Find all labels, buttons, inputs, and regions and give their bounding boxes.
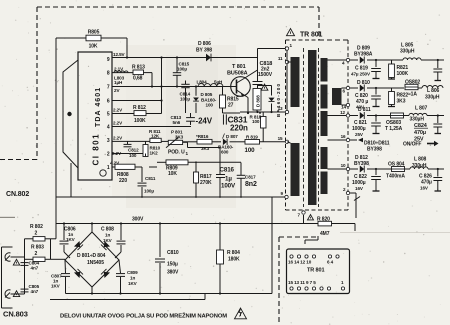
svg-text:T 1,25A: T 1,25A	[385, 126, 403, 132]
svg-text:100K: 100K	[134, 118, 146, 124]
resistor R808	[115, 164, 135, 184]
svg-text:1KV: 1KV	[51, 284, 61, 289]
svg-text:100V: 100V	[221, 182, 236, 189]
resistor R813	[132, 64, 145, 81]
svg-text:D 807: D 807	[226, 134, 238, 139]
svg-text:16: 16	[341, 134, 346, 139]
wire row pin10	[328, 163, 445, 171]
svg-text:1n: 1n	[130, 276, 135, 281]
transformer label TR 801	[287, 29, 323, 39]
svg-text:2: 2	[35, 231, 38, 237]
capacitor C808	[101, 224, 126, 259]
svg-text:1KV: 1KV	[128, 281, 138, 286]
TR801 bottom pins	[290, 287, 345, 290]
capacitor C826	[419, 169, 442, 191]
svg-text:180K: 180K	[228, 257, 240, 263]
svg-text:600: 600	[221, 150, 229, 155]
inductor L805	[400, 43, 421, 61]
diode D812	[354, 155, 369, 173]
svg-text:9: 9	[107, 57, 110, 63]
wire primary ground bus	[56, 196, 287, 198]
svg-text:R 804: R 804	[227, 250, 240, 256]
svg-text:2.2V: 2.2V	[113, 121, 123, 126]
label C831 220n	[228, 115, 249, 133]
svg-text:D 810: D 810	[357, 80, 370, 86]
svg-text:C810: C810	[167, 250, 179, 256]
svg-text:3: 3	[107, 138, 110, 144]
svg-text:BY 398: BY 398	[196, 48, 212, 54]
warning triangle C818	[261, 84, 268, 90]
svg-text:TDA 4601: TDA 4601	[95, 88, 102, 127]
wire lower return	[50, 294, 205, 300]
voltage label 4.2V	[110, 161, 120, 166]
transformer secondary winding upper	[321, 58, 328, 136]
transformer core dashed lines	[304, 48, 319, 207]
transformer pin 7	[298, 211, 306, 218]
svg-text:CN.803: CN.803	[3, 310, 28, 319]
svg-text:6: 6	[107, 99, 110, 105]
svg-text:100: 100	[245, 147, 256, 154]
mains isolation dashed boundary (top and left)	[0, 7, 348, 160]
capacitor C824	[414, 116, 442, 143]
svg-text:R 802: R 802	[30, 224, 43, 230]
svg-text:16 14 12 10: 16 14 12 10	[288, 260, 312, 265]
capacitor C806	[60, 224, 76, 259]
svg-text:≈1A: ≈1A	[408, 92, 417, 98]
transformer primary winding upper	[291, 57, 300, 107]
capacitor C815	[173, 58, 190, 87]
svg-text:15: 15	[278, 136, 283, 141]
capacitor C810	[155, 222, 179, 293]
svg-text:10K: 10K	[89, 44, 98, 50]
capacitor C816	[216, 148, 236, 198]
wire row pin6	[342, 86, 423, 93]
connector label CN.802	[6, 191, 29, 198]
capacitor C807	[51, 260, 70, 294]
cap C831	[223, 114, 226, 124]
svg-text:1500V: 1500V	[258, 72, 273, 78]
capacitor C811	[138, 167, 156, 197]
resistor R810	[143, 141, 161, 156]
TR801 label	[307, 268, 324, 274]
IC pin numbers	[107, 57, 110, 171]
resistor R816	[196, 134, 212, 151]
svg-text:L 806: L 806	[427, 88, 440, 94]
voltage label 2V	[114, 88, 120, 93]
voltage label 0.2V	[112, 151, 122, 156]
inductor L804	[197, 79, 224, 86]
svg-text:4: 4	[107, 125, 110, 131]
svg-text:OS802: OS802	[405, 80, 420, 86]
inductor L808	[405, 157, 428, 170]
resistor R809	[157, 160, 241, 177]
resistor R805	[86, 30, 101, 50]
wire pin1	[112, 166, 157, 168]
transformer pin 2 bottom	[343, 187, 360, 218]
transformer TR801 dashed box	[286, 40, 349, 210]
resistor R811	[149, 129, 161, 142]
resistor R818	[250, 112, 267, 142]
svg-text:L 808: L 808	[414, 157, 427, 163]
svg-text:-24V: -24V	[196, 117, 213, 126]
diode D808 boxed	[253, 89, 261, 113]
wire stub left edge	[0, 216, 15, 218]
zener D805	[193, 87, 217, 114]
transformer pin 11	[278, 56, 291, 64]
svg-text:D 806: D 806	[198, 41, 211, 47]
inductor L803	[114, 71, 128, 85]
svg-text:100: 100	[206, 102, 214, 107]
svg-text:330µH: 330µH	[410, 117, 425, 123]
transformer secondary winding lower	[321, 147, 328, 194]
svg-text:TR 801: TR 801	[307, 268, 324, 274]
svg-text:12K: 12K	[151, 134, 160, 139]
svg-text:100µ: 100µ	[180, 97, 190, 102]
capacitor C822	[352, 169, 381, 191]
voltage label 2.2V pin5	[113, 108, 123, 113]
plug pin 2	[5, 290, 25, 298]
bridge rectifier D801-D804	[65, 232, 119, 287]
label ON/OFF	[403, 141, 439, 148]
TR801 top labels	[288, 260, 334, 265]
wire pin6	[112, 56, 163, 113]
svg-text:CI 801: CI 801	[92, 134, 101, 166]
wire row pin4	[328, 58, 445, 65]
diode BA160-200	[258, 83, 282, 117]
bridge diode TR	[101, 241, 110, 250]
svg-text:470µ: 470µ	[414, 130, 426, 136]
svg-text:4n7: 4n7	[31, 266, 39, 271]
svg-text:C816: C816	[220, 166, 235, 173]
svg-text:1n: 1n	[105, 233, 110, 238]
svg-text:330µH: 330µH	[425, 95, 440, 101]
plug pin 1	[5, 253, 25, 261]
svg-text:OS 804: OS 804	[388, 162, 405, 168]
svg-text:150µ: 150µ	[167, 262, 178, 268]
resistor R817	[194, 162, 213, 197]
capacitor C809	[116, 260, 138, 294]
wire left rail x56	[55, 38, 57, 239]
TR801 top pins	[290, 255, 339, 258]
svg-text:6 4: 6 4	[327, 260, 334, 265]
voltage label 2.2V pin4	[113, 121, 123, 126]
bridge diode TL	[74, 241, 83, 250]
inductor L806	[422, 86, 443, 101]
dashed boundary at bottom (to TR801 connector)	[279, 237, 318, 325]
diode D810	[357, 80, 370, 92]
capacitor C814	[180, 81, 191, 114]
wire P801 out	[183, 142, 220, 147]
wire pin8	[112, 73, 152, 87]
voltage label 2.2V pin3	[113, 136, 123, 141]
svg-text:*R816: *R816	[196, 134, 209, 139]
svg-text:220: 220	[119, 178, 127, 184]
transformer pin 15	[278, 136, 289, 144]
wire 300V bus	[56, 223, 318, 225]
voltage label 2.1V	[114, 67, 124, 72]
svg-text:8: 8	[107, 71, 110, 77]
bridge diode BL	[74, 269, 83, 278]
svg-text:D 808: D 808	[256, 95, 261, 107]
transformer pin 1	[285, 43, 292, 50]
svg-text:380V: 380V	[167, 270, 179, 276]
IC text TDA 4601	[95, 88, 102, 127]
svg-text:1µH: 1µH	[114, 80, 123, 85]
svg-text:16V: 16V	[355, 186, 364, 191]
warning triangle plug1	[13, 259, 19, 265]
diode D807	[218, 134, 238, 155]
connector TR801 box	[287, 249, 350, 294]
svg-text:POD. U: POD. U	[168, 150, 185, 156]
svg-text:BU508A: BU508A	[227, 71, 248, 77]
svg-text:5µH: 5µH	[214, 79, 223, 84]
svg-text:R805: R805	[88, 30, 100, 36]
svg-text:220n: 220n	[230, 123, 248, 132]
svg-text:1KV: 1KV	[103, 238, 113, 243]
wire R805 net	[56, 38, 127, 58]
svg-text:5n6: 5n6	[173, 120, 181, 125]
IC tab	[63, 60, 78, 168]
svg-text:D 811: D 811	[358, 107, 371, 113]
svg-text:1K2: 1K2	[150, 151, 159, 156]
svg-text:4M7: 4M7	[320, 231, 330, 237]
resistor R815	[220, 87, 239, 114]
svg-text:BY398: BY398	[367, 147, 382, 153]
wire pin13 line	[223, 111, 287, 114]
bridge diode BR	[101, 269, 110, 278]
svg-text:1N5405: 1N5405	[87, 260, 104, 266]
label 300V	[132, 217, 144, 223]
wire top rail join	[51, 238, 57, 240]
svg-text:T400mA: T400mA	[386, 174, 405, 180]
connector label CN.803	[3, 310, 28, 319]
svg-text:BY398A: BY398A	[354, 52, 373, 58]
svg-text:3K3: 3K3	[201, 146, 210, 151]
wire R815 bottom	[222, 112, 225, 114]
svg-text:4n7: 4n7	[31, 289, 39, 294]
svg-text:R 819: R 819	[246, 134, 258, 139]
transformer primary rail	[286, 49, 288, 111]
svg-text:3K3: 3K3	[175, 135, 184, 140]
wire row D807	[183, 142, 287, 148]
svg-text:C809: C809	[127, 270, 138, 275]
transformer pin 9	[281, 191, 289, 199]
wire pin2	[112, 153, 143, 155]
svg-text:15 13 11 9 7 5: 15 13 11 9 7 5	[288, 280, 316, 285]
svg-text:3K3: 3K3	[397, 99, 406, 105]
IC text CI 801	[92, 134, 101, 166]
svg-text:DELOVI UNUTAR OVOG POLJA SU PO: DELOVI UNUTAR OVOG POLJA SU POD MREŽNIM …	[60, 312, 228, 320]
warning triangle big	[235, 308, 247, 319]
wire pin7 stub	[303, 215, 305, 224]
wire pin9 12.5V rail	[112, 56, 258, 58]
svg-text:TR 801: TR 801	[300, 32, 323, 39]
svg-text:5: 5	[107, 112, 110, 118]
faint scan line right	[340, 232, 450, 234]
warning triangle plug2	[13, 291, 19, 297]
capacitor C804	[21, 261, 40, 271]
resistor R819	[245, 134, 260, 154]
svg-text:330µH: 330µH	[400, 49, 415, 55]
resistor R804	[217, 222, 241, 293]
svg-text:100K: 100K	[397, 71, 409, 77]
IC bottom circle	[100, 170, 106, 176]
svg-text:8n2: 8n2	[245, 181, 257, 188]
svg-text:C812: C812	[128, 148, 139, 153]
capacitor C805	[21, 284, 40, 294]
resistor R812	[133, 105, 146, 124]
diode D809	[354, 46, 373, 64]
connector CN803 box	[2, 247, 13, 308]
cap C813	[171, 113, 195, 125]
IC CI801 TDA4601 box	[78, 52, 112, 180]
label -24V	[196, 117, 213, 126]
wire emitter	[244, 95, 248, 113]
wire secondary ground	[373, 190, 442, 192]
svg-text:7: 7	[107, 85, 110, 91]
svg-text:12.5V: 12.5V	[113, 52, 126, 57]
svg-text:BY398: BY398	[354, 161, 369, 167]
svg-text:C817: C817	[245, 175, 256, 180]
fuse OS804	[386, 162, 405, 180]
wire bridge bottom	[91, 287, 93, 294]
svg-text:13: 13	[278, 106, 283, 111]
capacitor C820	[355, 88, 381, 110]
pot P801	[166, 130, 184, 148]
capacitor C819	[351, 60, 381, 79]
diode D811	[358, 107, 371, 119]
resistor R821	[388, 60, 409, 79]
svg-text:27: 27	[228, 103, 234, 109]
svg-text:0,68: 0,68	[133, 76, 143, 82]
svg-text:C811: C811	[145, 176, 156, 181]
svg-text:CN.802: CN.802	[6, 191, 29, 198]
wire bridge top	[63, 222, 122, 232]
mains warning text	[60, 312, 228, 320]
svg-text:16V: 16V	[420, 186, 429, 191]
svg-text:ON/OFF: ON/OFF	[403, 142, 421, 148]
svg-text:R 812: R 812	[133, 105, 146, 111]
wire IC tab ground	[70, 163, 72, 197]
fuse OS802	[405, 80, 420, 98]
svg-text:270K: 270K	[200, 180, 212, 186]
resistor R802	[25, 224, 51, 241]
transformer primary winding lower	[287, 142, 300, 196]
svg-text:R 803: R 803	[31, 245, 44, 251]
svg-text:10K: 10K	[168, 171, 177, 177]
svg-text:47µ 250V: 47µ 250V	[351, 72, 371, 77]
svg-text:100µ: 100µ	[144, 189, 154, 194]
wire minus rail	[66, 292, 273, 294]
resistor R822	[388, 88, 408, 107]
svg-text:100µ: 100µ	[177, 66, 187, 71]
svg-text:L804: L804	[197, 79, 208, 84]
transistor T801	[227, 64, 250, 97]
transformer core bar	[308, 50, 317, 205]
cap C812 stub	[124, 141, 140, 158]
wire pin3	[112, 140, 168, 142]
wire box right edge	[271, 197, 273, 294]
resistor R820	[305, 215, 355, 245]
capacitor C823	[433, 60, 442, 81]
svg-text:330µH: 330µH	[412, 163, 427, 169]
inductor L807	[404, 106, 428, 123]
capacitor C817	[237, 163, 257, 198]
svg-text:10: 10	[341, 163, 346, 168]
label POD U1	[168, 150, 189, 157]
svg-text:300V: 300V	[132, 217, 144, 223]
wire pin5	[112, 113, 162, 115]
svg-text:2: 2	[35, 251, 38, 257]
svg-text:1: 1	[107, 165, 110, 171]
capacitor C821	[352, 116, 381, 138]
transformer pin 14	[341, 103, 350, 109]
wire 12.5V to pin1	[258, 48, 288, 50]
wire collector	[244, 49, 258, 82]
label D810-D811	[358, 138, 390, 153]
svg-text:11: 11	[278, 56, 283, 61]
diode D806	[196, 41, 212, 61]
wire R802R803 rails	[25, 239, 66, 294]
wire pin7 base line	[112, 85, 237, 87]
wire pin4	[112, 126, 191, 128]
transformer secondary small winding	[332, 88, 342, 105]
svg-text:D 801÷D 804: D 801÷D 804	[77, 253, 106, 259]
svg-text:12: 12	[340, 110, 345, 115]
svg-text:2.2V: 2.2V	[113, 136, 123, 141]
wire row pin12	[328, 110, 445, 117]
svg-text:L 807: L 807	[415, 106, 428, 112]
transformer pin 13	[278, 106, 289, 114]
svg-text:T 801: T 801	[232, 64, 246, 70]
svg-text:2: 2	[107, 152, 110, 158]
scan gray wash	[112, 45, 236, 208]
resistor R803	[25, 245, 51, 262]
svg-text:100: 100	[252, 119, 260, 124]
svg-text:R 813: R 813	[132, 64, 145, 70]
voltage label 12.5V	[113, 52, 126, 57]
svg-text:2.2V: 2.2V	[113, 108, 123, 113]
svg-text:25V: 25V	[355, 132, 364, 137]
svg-text:1KV: 1KV	[66, 237, 76, 242]
fuse OS803	[385, 113, 404, 132]
TR801 bottom labels	[288, 280, 344, 285]
wire row pin16	[328, 134, 358, 142]
capacitor C818	[253, 61, 273, 88]
